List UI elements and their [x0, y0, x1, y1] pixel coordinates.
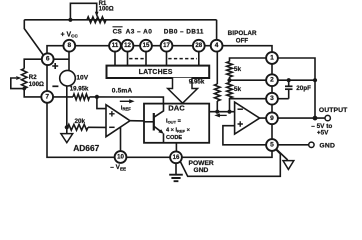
LATCHES block [107, 66, 210, 78]
resistor 20k [68, 124, 89, 130]
wire: R1 left leg down to pin 6 [24, 20, 44, 56]
junction: 20pF top [287, 78, 291, 82]
junction: 5k tap to pin 2 [227, 78, 231, 82]
svg-text:16: 16 [173, 154, 180, 161]
wire: pin 3 to 20pF bottom [278, 98, 289, 100]
svg-text:LATCHES: LATCHES [139, 69, 173, 76]
resistor R2 [22, 69, 27, 89]
wire: branch down to ref amp + input [97, 97, 106, 109]
svg-text:2: 2 [270, 77, 274, 84]
pin 6 (ref out) [42, 53, 54, 65]
capacitor 20pF [288, 80, 290, 86]
svg-text:IREF: IREF [121, 105, 131, 111]
wire: tap to pin 2 [230, 79, 267, 81]
svg-text:GND: GND [319, 142, 335, 149]
wire: pin 2 to output rail [278, 79, 315, 81]
svg-text:AD667: AD667 [73, 143, 99, 153]
current arrow into DAC [220, 114, 227, 116]
wire: pin 7 to 19.95k [53, 96, 73, 98]
wire: pin 16 to pin 5 ground loop [180, 149, 280, 176]
pin 4 (bipolar offset) [211, 40, 223, 52]
svg-text:BIPOLAR: BIPOLAR [228, 30, 257, 37]
transistor Q1 (DAC output cell) [153, 113, 155, 131]
wire: pin 8 down to 10V reference [68, 52, 70, 71]
svg-text:5: 5 [270, 142, 274, 149]
svg-text:DB0 – DB11: DB0 – DB11 [164, 29, 204, 36]
wire: pin 5 to GND terminal [278, 144, 309, 146]
dashed continuation A3-A0 [129, 58, 144, 60]
svg-text:IOUT =: IOUT = [166, 118, 182, 124]
svg-text:3: 3 [270, 95, 274, 102]
wire: pin 1 to span resistor chain [230, 58, 267, 62]
voltage reference 10V [60, 70, 76, 86]
op-amp A1 (reference amplifier) [106, 105, 130, 137]
wire: 20k to ref amp - input [88, 126, 106, 128]
svg-text:12: 12 [124, 42, 131, 49]
wire: pin 28 stub to latches [198, 52, 200, 66]
svg-text:7: 7 [45, 93, 49, 100]
svg-text:4: 4 [215, 42, 219, 49]
pin 2 (10V span) [266, 74, 278, 86]
wire: DAC emitter to pin 16 [175, 143, 177, 152]
wire: pin 4 down [216, 52, 218, 84]
svg-text:5k: 5k [234, 86, 242, 93]
pin 1 (20V span) [266, 52, 278, 64]
svg-text:11: 11 [112, 42, 119, 49]
pin 8 (+Vcc) [63, 40, 75, 52]
wire: summing junction to pin 3 [230, 98, 267, 100]
R2 wiper arm [11, 78, 24, 89]
svg-text:9.95k: 9.95k [189, 79, 205, 86]
pin 15 [140, 40, 152, 52]
svg-text:GND: GND [194, 167, 209, 174]
resistor 19.95k [73, 94, 90, 100]
wire: output amp to OUTPUT terminal [260, 117, 325, 119]
wire: pin 15 stub to latches [145, 52, 147, 66]
dashed continuation DB0-DB11 [168, 58, 197, 60]
pin 17 [161, 40, 173, 52]
pin 9 (Vout) [266, 112, 278, 124]
bus arrow latches to DAC [168, 78, 198, 103]
pin 12 [122, 40, 134, 52]
pin 11 (CS) [109, 40, 121, 52]
wire: R2 bottom to pin 7 [24, 89, 41, 97]
svg-text:100Ω: 100Ω [99, 5, 114, 12]
wire: R1 top rail from node A to pin 4 drop [24, 20, 216, 40]
junction: 5k chain at summing line [227, 110, 231, 114]
svg-text:28: 28 [195, 42, 202, 49]
pin 16 (power gnd) [170, 151, 182, 163]
svg-text:6: 6 [46, 56, 50, 63]
junction: ref amp + branch [95, 95, 99, 99]
svg-text:19.95k: 19.95k [70, 86, 89, 93]
wire: pin 11 stub to latches [114, 52, 116, 66]
op-amp A2 (output amplifier) [235, 102, 260, 134]
wire: output amp + input to pin 5 [223, 126, 266, 145]
wire: reference - terminal down to 20k node [66, 86, 68, 127]
current arrow IREF [120, 100, 131, 102]
terminal: OUTPUT [325, 115, 330, 120]
earth ground at pin 16 [175, 163, 177, 174]
svg-text:10V: 10V [76, 74, 88, 81]
svg-text:8: 8 [67, 42, 71, 49]
pin 5 (ref gnd) [266, 139, 278, 151]
AD667 chip outline [47, 46, 272, 158]
wire: 19.95k to DAC reference (IREF) [90, 97, 164, 104]
pin 10 (-Vee) [115, 151, 127, 163]
ground (open triangle) at pin 5 [276, 149, 288, 160]
wire: pin 1 to output rail [278, 58, 315, 118]
svg-text:1: 1 [270, 55, 274, 62]
ground (open triangle) at 20k node [66, 127, 68, 133]
svg-text:4 × IREF ×: 4 × IREF × [166, 127, 191, 133]
svg-text:OUTPUT: OUTPUT [319, 107, 348, 114]
node: reference - polarity mark [52, 85, 58, 87]
wire: DAC output summing line [209, 111, 234, 113]
svg-text:OFF: OFF [236, 38, 249, 45]
svg-text:9: 9 [270, 115, 274, 122]
svg-text:CODE: CODE [166, 135, 182, 141]
R1 wiper arm [70, 3, 96, 20]
pin 28 [193, 40, 205, 52]
wire: pin 6 to reference + terminal [54, 58, 69, 60]
svg-text:20k: 20k [75, 118, 86, 125]
wire: ref amp to pin 10 (-Vee) [120, 127, 122, 151]
pin 7 (ref in) [41, 91, 53, 103]
wire: pin 6 to R2 top [24, 59, 42, 68]
svg-text:100Ω: 100Ω [29, 81, 44, 88]
terminal: GND [309, 142, 314, 147]
junction: output node [313, 116, 318, 121]
resistor 5k (upper) [227, 62, 233, 78]
pin 3 (summing junction) [266, 93, 278, 105]
svg-text:17: 17 [163, 42, 170, 49]
svg-text:+5V: +5V [317, 130, 329, 137]
svg-text:15: 15 [143, 42, 150, 49]
junction: 20k node [65, 125, 69, 129]
svg-text:5k: 5k [234, 66, 242, 73]
junction: pin2/output rail [313, 78, 317, 82]
wire: ref amp output to DAC [130, 120, 144, 122]
svg-text:10: 10 [117, 154, 124, 161]
svg-text:DAC: DAC [168, 104, 185, 113]
svg-text:A3 – A0: A3 – A0 [126, 29, 153, 36]
wire: pin 17 stub to latches [166, 52, 168, 66]
node: reference + polarity mark [52, 63, 58, 69]
svg-text:20pF: 20pF [296, 85, 311, 92]
wire: pin 12 stub to latches [127, 52, 129, 66]
resistor 5k (lower) [227, 83, 233, 99]
junction: 9.95k at summing line [215, 110, 219, 114]
svg-text:CS: CS [113, 29, 123, 36]
DAC block [144, 104, 209, 143]
resistor 9.95k [215, 84, 221, 101]
resistor R1 [87, 17, 106, 23]
svg-text:0.5mA: 0.5mA [112, 87, 133, 94]
